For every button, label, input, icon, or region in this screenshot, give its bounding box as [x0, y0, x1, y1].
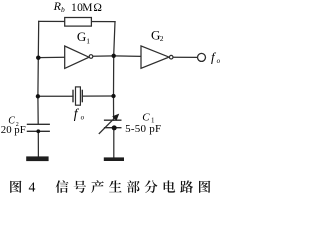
svg-text:o: o — [81, 113, 85, 121]
svg-text:5-50 pF: 5-50 pF — [125, 123, 161, 135]
svg-text:G: G — [77, 29, 86, 44]
svg-text:o: o — [217, 57, 220, 65]
svg-text:1: 1 — [86, 36, 90, 45]
svg-text:2: 2 — [160, 34, 164, 43]
svg-text:M: M — [82, 2, 92, 14]
svg-text:Ω: Ω — [93, 2, 102, 14]
svg-text:C: C — [142, 111, 150, 123]
svg-text:b: b — [61, 5, 65, 14]
svg-text:4: 4 — [29, 180, 36, 195]
svg-text:f: f — [74, 106, 80, 121]
svg-text:20 pF: 20 pF — [1, 124, 26, 136]
